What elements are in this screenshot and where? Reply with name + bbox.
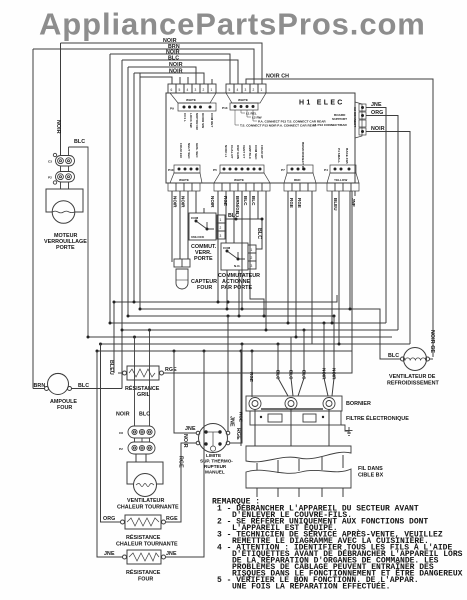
bus junction dots [87, 301, 352, 353]
label FIL DANS CIBLE BX [358, 466, 384, 479]
svg-text:2: 2 [203, 88, 205, 92]
svg-text:BLEU: BLEU [333, 198, 338, 211]
connector C8 convection [128, 330, 155, 438]
svg-text:BLC: BLC [251, 196, 256, 206]
svg-text:BAKE 4SB: BAKE 4SB [345, 148, 349, 164]
label MOTEUR VERROUILLAGE PORTE [44, 233, 87, 251]
svg-text:BLC: BLC [243, 196, 248, 206]
svg-text:DOOR SW: DOOR SW [201, 113, 205, 128]
ground [341, 425, 353, 436]
svg-text:FOUR: FOUR [57, 405, 72, 411]
svg-text:P9: P9 [170, 107, 174, 111]
svg-text:PORTE: PORTE [56, 245, 75, 251]
connector H2 right side [355, 102, 366, 138]
svg-text:UNLOCK: UNLOCK [191, 235, 205, 239]
svg-text:NOIR: NOIR [169, 62, 183, 68]
svg-text:MOTOR DR: MOTOR DR [195, 113, 199, 131]
svg-text:UNE FOIS LA RÉPARATION EFFECTU: UNE FOIS LA RÉPARATION EFFECTUÉE. [232, 583, 390, 592]
annotation lines P13 [235, 110, 257, 125]
svg-text:NEUT SEC: NEUT SEC [187, 143, 191, 159]
svg-text:AppliancePartsPros.com: AppliancePartsPros.com [39, 7, 426, 42]
svg-text:RGE: RGE [239, 412, 244, 422]
svg-text:ORG: ORG [103, 516, 115, 522]
svg-text:WHITE: WHITE [186, 98, 196, 102]
svg-text:GRIL SEC: GRIL SEC [195, 143, 199, 158]
svg-text:3: 3 [245, 88, 247, 92]
wire top BLC [122, 60, 238, 84]
wire P4 pin1 BLEU [331, 191, 333, 323]
svg-text:JNE: JNE [166, 551, 177, 557]
svg-text:WHITE: WHITE [234, 178, 244, 182]
svg-text:BLC: BLC [168, 56, 179, 62]
label RESISTANCE CHALEUR TOURNANTE [116, 533, 178, 548]
svg-text:COM SEC: COM SEC [254, 145, 258, 160]
svg-text:NOIR: NOIR [169, 69, 183, 75]
svg-text:VENTILATEUR: VENTILATEUR [127, 498, 164, 504]
wire P5 pin7 [265, 191, 267, 330]
svg-text:GRIL: GRIL [137, 392, 151, 398]
svg-text:RGE: RGE [289, 198, 294, 208]
svg-text:NOIR L1: NOIR L1 [224, 145, 228, 157]
svg-text:CHALEUR TOURNANTE: CHALEUR TOURNANTE [117, 505, 179, 511]
label COMMUT VERR PORTE [191, 244, 217, 262]
svg-text:3: 3 [220, 234, 222, 238]
motor lock box [46, 189, 83, 223]
ventilateur de refroidissement fan [401, 348, 434, 371]
svg-text:PORTE: PORTE [194, 256, 213, 262]
label LIMITE SUP THERMO [200, 453, 233, 475]
wire bus vertical 5 [139, 77, 141, 309]
resistance gril [118, 191, 352, 380]
wire P5 pin6 BLC [257, 191, 259, 219]
svg-text:JNE: JNE [104, 551, 115, 557]
svg-text:BORNIER: BORNIER [346, 401, 371, 407]
svg-text:6: 6 [171, 88, 173, 92]
svg-text:SUP. THERMO-: SUP. THERMO- [200, 459, 233, 464]
svg-text:H2 CONNECT: H2 CONNECT [353, 107, 357, 127]
switch COMMUTATEUR ACTIONNE PAR PORTE [221, 243, 256, 270]
switch C3/P2 door lock top [53, 147, 88, 337]
svg-text:NOIR GE: NOIR GE [429, 330, 435, 353]
wire P10 pin3 to capteur [187, 191, 189, 259]
wire bus vertical 2 [121, 60, 123, 389]
svg-text:BRN/CONNECT RD: BRN/CONNECT RD [301, 142, 305, 171]
svg-text:1: 1 [220, 218, 222, 222]
wires below board group A [172, 191, 355, 344]
label RESISTANCE GRIL [125, 384, 160, 398]
wire P4 pin2 [338, 191, 340, 344]
svg-text:WHITE: WHITE [179, 178, 189, 182]
wire bus row8 [97, 350, 352, 352]
wire P7 pin1 RGE [287, 191, 289, 323]
wire P5 pin1 NOIR [217, 191, 219, 302]
svg-text:CC1 L: CC1 L [183, 113, 187, 122]
svg-text:BLC: BLC [228, 213, 239, 219]
svg-text:RGE: RGE [235, 428, 241, 440]
wire P10 pin4 to commut [195, 191, 197, 213]
wire BLC switch [225, 219, 262, 249]
connector P5 bottom mid [214, 165, 270, 191]
svg-text:C3: C3 [48, 160, 52, 164]
svg-text:BLC: BLC [289, 370, 294, 380]
svg-text:RGE: RGE [178, 456, 184, 468]
svg-text:NOIR: NOIR [181, 196, 186, 208]
switch COMMUT VERR PORTE [189, 213, 225, 240]
wire NOIR to right [366, 132, 410, 345]
wire JNE to right [366, 108, 386, 324]
wire P10 pin1 NOIR [171, 191, 173, 262]
svg-text:C8: C8 [119, 431, 123, 435]
svg-text:COM RET: COM RET [210, 113, 214, 127]
connector P10 bottom left [168, 165, 202, 191]
svg-text:BLC: BLC [302, 370, 307, 380]
resistance chaleur tournante [101, 344, 166, 529]
svg-text:1: 1 [251, 248, 253, 252]
wire top NOIR2 [110, 54, 230, 84]
svg-text:NOIR: NOIR [332, 368, 337, 380]
wire P7 pin2 RGE [295, 191, 297, 337]
wire top BRN [33, 49, 254, 84]
wire bus vertical 3 [127, 67, 129, 316]
svg-text:5: 5 [229, 88, 231, 92]
svg-text:L1 P13 CONNECT/BAR: L1 P13 CONNECT/BAR [313, 123, 347, 127]
resistance four [97, 351, 204, 564]
label CAPTEUR FOUR [191, 279, 217, 291]
svg-text:RGE: RGE [165, 367, 177, 373]
svg-text:3: 3 [251, 264, 253, 268]
svg-text:4: 4 [187, 88, 189, 92]
svg-text:T.S. CONNECT P13 NOIR P.A. CON: T.S. CONNECT P13 NOIR P.A. CONNECT CAR R… [240, 124, 317, 128]
svg-text:RUPTEUR: RUPTEUR [204, 464, 227, 469]
label VENTILATEUR CHALEUR TOURNANTE [117, 498, 179, 511]
svg-text:NOIR: NOIR [322, 368, 327, 380]
svg-text:BLC: BLC [256, 228, 262, 239]
svg-text:NOIR: NOIR [210, 196, 215, 208]
wire stub pins row1 [140, 73, 172, 84]
svg-text:1: 1 [261, 88, 263, 92]
svg-text:BLC: BLC [276, 370, 281, 380]
svg-text:COM: COM [223, 246, 231, 250]
svg-text:RGE: RGE [249, 372, 254, 382]
svg-text:FOUR 240: FOUR 240 [179, 143, 183, 158]
svg-text:P7: P7 [281, 168, 285, 172]
filtre electronique [250, 411, 341, 430]
svg-text:P10: P10 [168, 168, 174, 172]
connector P9 trapezoid white [170, 93, 216, 111]
cable wires below [257, 455, 343, 497]
svg-text:RED: RED [294, 178, 301, 182]
wire P7 pin4 [311, 191, 313, 344]
wire bus row1 [114, 295, 337, 302]
board H1 ELEC [166, 93, 355, 183]
svg-text:JNE: JNE [229, 416, 235, 427]
wire commutateur bottom exits [227, 270, 239, 316]
svg-text:REFROIDISSEMENT: REFROIDISSEMENT [387, 381, 440, 387]
svg-text:RGE: RGE [166, 516, 178, 522]
svg-text:CIBLE BX: CIBLE BX [358, 473, 384, 479]
label AMPOULE FOUR [50, 399, 77, 411]
label VENTILATEUR DE REFROIDISSEMENT [387, 374, 440, 387]
svg-text:H1 ELEC: H1 ELEC [299, 100, 345, 107]
svg-text:NOIR: NOIR [182, 434, 188, 448]
svg-text:RÉSISTANCE: RÉSISTANCE [125, 384, 160, 392]
wire NOIR CH [246, 79, 433, 357]
svg-text:DSP GRN: DSP GRN [236, 145, 240, 160]
svg-text:BLEU: BLEU [108, 360, 114, 375]
svg-text:NOIR: NOIR [173, 196, 178, 208]
svg-text:RÉSISTANCE: RÉSISTANCE [126, 533, 161, 541]
wire BLEU drop to resistance gril [113, 302, 115, 373]
connector P7 bottom red [284, 165, 316, 191]
svg-text:5: 5 [179, 88, 181, 92]
wire bus vertical 4 [133, 73, 135, 302]
wire top NOIR [61, 43, 263, 84]
pin labels under P9 [183, 113, 214, 131]
svg-text:2: 2 [253, 88, 255, 92]
svg-text:P4 SMALL: P4 SMALL [337, 148, 341, 163]
wire top NOIR4 [134, 73, 204, 84]
remarque notes [212, 498, 463, 592]
wire left border [32, 49, 34, 389]
svg-text:FOUR RT: FOUR RT [260, 145, 264, 159]
svg-text:FOUR: FOUR [138, 577, 153, 583]
svg-text:NOIR CH: NOIR CH [266, 74, 289, 80]
svg-text:P2: P2 [119, 447, 123, 451]
svg-text:MANUEL: MANUEL [205, 470, 225, 475]
svg-text:1: 1 [211, 88, 213, 92]
bus lines [88, 295, 410, 373]
svg-text:VENT CT: VENT CT [242, 145, 246, 158]
svg-text:P4: P4 [324, 168, 328, 172]
svg-text:N.O.: N.O. [234, 264, 241, 268]
board support note [332, 113, 347, 121]
wire bus row5 [122, 329, 398, 331]
thermostat limite sup [165, 316, 242, 522]
svg-text:P13: P13 [222, 106, 228, 110]
svg-text:2: 2 [220, 226, 222, 230]
svg-text:COM: COM [191, 216, 199, 220]
wire NOIR left vertical [60, 43, 62, 156]
svg-text:FIL DANS: FIL DANS [358, 466, 383, 472]
svg-text:FILTRE ÉLECTRONIQUE: FILTRE ÉLECTRONIQUE [346, 414, 409, 422]
bornier feed wires [241, 316, 334, 446]
svg-text:4: 4 [237, 88, 239, 92]
wire bus row7 [101, 343, 411, 345]
wire P5 pin2 to commutateur [225, 191, 227, 243]
svg-text:BRN: BRN [34, 383, 46, 389]
wire P4 pin3 JNE [349, 191, 351, 309]
ventilateur chaleur tournante [127, 454, 163, 497]
connector P4 bottom yellow [327, 165, 359, 191]
cable bands fil dans cable [246, 446, 351, 488]
svg-text:JNE: JNE [185, 426, 196, 432]
bornier terminal block [246, 396, 342, 446]
connector row2 top [226, 84, 266, 93]
svg-text:SUPPORT: SUPPORT [332, 117, 347, 121]
svg-text:BRN/GE: BRN/GE [235, 196, 240, 214]
wire P5 pin4 BRN/GE [241, 191, 243, 309]
wire bus row3 [128, 315, 334, 317]
wire P10 pin2 NOIR to capteur [179, 191, 181, 259]
svg-text:BLC: BLC [74, 139, 85, 145]
svg-text:3: 3 [195, 88, 197, 92]
svg-text:AMP BLC: AMP BLC [248, 145, 252, 160]
wire bus row4 [110, 322, 386, 324]
wire bus row6 [88, 336, 392, 338]
svg-text:RGE: RGE [223, 196, 228, 206]
wire ORG to right [366, 116, 398, 331]
svg-text:RGE: RGE [297, 198, 302, 208]
svg-text:YELLOW: YELLOW [334, 178, 347, 182]
svg-text:NOIR: NOIR [55, 120, 61, 134]
svg-text:PAR PORTE: PAR PORTE [221, 285, 252, 291]
svg-text:WHITE: WHITE [238, 98, 248, 102]
svg-text:VENTILATEUR DE: VENTILATEUR DE [389, 374, 436, 380]
wire bus row2 to fan BLC [140, 309, 401, 359]
wire stub commut top [203, 208, 205, 213]
wire top NOIR3 [128, 67, 196, 84]
wire P5 pin3 to commutateur [233, 191, 235, 243]
svg-text:BLC: BLC [139, 412, 150, 418]
svg-text:BLC: BLC [388, 353, 399, 359]
svg-text:P5: P5 [213, 168, 217, 172]
svg-text:CHALEUR TOURNANTE: CHALEUR TOURNANTE [116, 542, 178, 548]
connector P2 convection [128, 438, 155, 454]
wire P5 pin5 BLC jog [250, 191, 264, 316]
svg-text:RÉSISTANCE: RÉSISTANCE [126, 568, 161, 576]
svg-text:FOUR: FOUR [197, 285, 212, 291]
svg-text:BLC: BLC [78, 383, 89, 389]
svg-text:NOIR: NOIR [116, 412, 130, 418]
svg-text:LIMITE: LIMITE [206, 453, 221, 458]
svg-text:2: 2 [251, 256, 253, 260]
wire bus vertical 1 [109, 54, 111, 323]
connector P13 trapezoid [226, 93, 266, 110]
ampoule four lamp [33, 373, 122, 394]
svg-text:LOCK SW: LOCK SW [189, 113, 193, 128]
wire P4 pin4 stub [354, 191, 356, 196]
svg-text:CHAL RT: CHAL RT [230, 145, 234, 159]
label COMMUTATEUR ACTIONNE PAR PORTE [218, 273, 260, 291]
label RESISTANCE FOUR [126, 568, 161, 583]
wire color labels below board [173, 196, 357, 214]
connector row1 top [168, 84, 216, 93]
capteur four [174, 259, 190, 289]
svg-text:P2: P2 [48, 176, 52, 180]
